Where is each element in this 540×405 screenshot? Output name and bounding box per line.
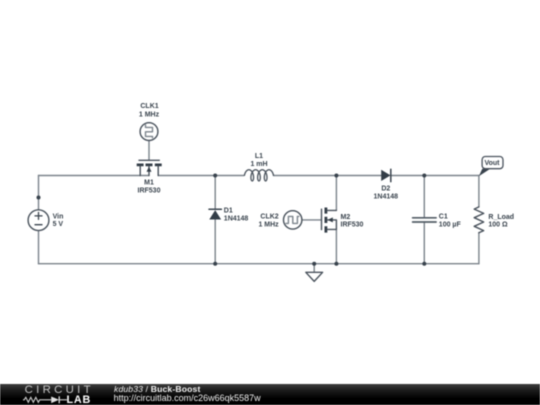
wire: M2 drain to top rail: [335, 176, 337, 211]
wire: top rail M1 drain to L1: [158, 175, 244, 177]
svg-text:C1: C1: [439, 213, 448, 220]
wire: top rail D2 cathode to Vout corner: [391, 175, 479, 177]
diode D1: [209, 209, 221, 219]
svg-text:Vout: Vout: [484, 160, 500, 167]
svg-text:IRF530: IRF530: [138, 187, 161, 194]
wire: Vin positive lead: [38, 176, 40, 210]
node dot ground on bottom rail: [312, 262, 316, 266]
CircuitLab logo wordmark CIRCUIT: [25, 384, 105, 396]
clock source CLK1: [140, 123, 158, 141]
wire: ground stub: [313, 264, 315, 273]
inductor L1: [244, 170, 273, 181]
svg-text:Vin: Vin: [53, 213, 64, 220]
footer url: [114, 393, 261, 403]
wire: M2 source to bottom rail: [335, 229, 337, 263]
footer title kdub33 / Buck-Boost: [114, 384, 200, 394]
transistor M2 (NMOS, vertical): [322, 208, 337, 233]
wire: top rail Vin to M1 source: [39, 175, 150, 177]
net flag Vout: [479, 157, 503, 177]
svg-text:1N4148: 1N4148: [374, 193, 399, 200]
wire: C1 bottom lead: [423, 222, 425, 264]
wire: D1 cathode to top rail: [214, 176, 216, 210]
svg-text:R_Load: R_Load: [488, 214, 514, 221]
resistor R_Load: [474, 207, 484, 233]
wire: Vin negative lead: [38, 231, 40, 264]
clock source CLK2: [284, 211, 302, 229]
transistor M1 (NMOS, horizontal): [137, 160, 162, 175]
CircuitLab logo circuit squiggle (resistor + diode): [23, 395, 73, 405]
svg-text:100 µF: 100 µF: [439, 221, 462, 228]
diode D2: [381, 169, 391, 181]
footer bar: [0, 384, 540, 405]
wire: C1 top lead: [423, 176, 425, 218]
svg-text:1 MHz: 1 MHz: [139, 111, 160, 118]
svg-text:D2: D2: [381, 186, 390, 193]
svg-text:CLK2: CLK2: [260, 214, 278, 221]
svg-text:CLK1: CLK1: [140, 103, 158, 110]
svg-text:1N4148: 1N4148: [224, 215, 249, 222]
node dot C1 bottom on bottom rail: [422, 262, 426, 266]
wire: R_Load bottom lead: [478, 233, 480, 264]
wire: D1 anode to bottom rail: [214, 219, 216, 263]
node dot C1 top on top rail: [422, 174, 426, 178]
node dot D1 anode on bottom rail: [213, 262, 217, 266]
wire: CLK2 output to M2 gate: [302, 219, 322, 221]
voltage source Vin: [28, 210, 49, 231]
wire: CLK1 output to M1 gate: [148, 141, 150, 161]
CircuitLab logo wordmark LAB: [67, 394, 92, 405]
svg-text:1 MHz: 1 MHz: [258, 222, 279, 229]
node dot on Vin lead: [37, 196, 41, 200]
svg-text:IRF530: IRF530: [341, 222, 364, 229]
capacitor C1: [413, 218, 437, 222]
svg-text:L1: L1: [255, 153, 263, 160]
svg-text:M2: M2: [341, 214, 351, 221]
svg-text:M1: M1: [144, 179, 154, 186]
wire: bottom rail: [39, 263, 479, 265]
ground: [306, 272, 323, 281]
node dot D1 cathode / switch node: [213, 174, 217, 178]
wire: R_Load top lead: [478, 176, 480, 207]
svg-text:5 V: 5 V: [53, 221, 64, 228]
svg-text:100 Ω: 100 Ω: [488, 222, 508, 229]
svg-text:D1: D1: [224, 207, 233, 214]
node dot M2 drain on top rail: [334, 174, 338, 178]
svg-text:1 mH: 1 mH: [250, 161, 267, 168]
wire: top rail L1 to D2 anode: [274, 175, 382, 177]
node dot M2 source on bottom rail: [334, 262, 338, 266]
